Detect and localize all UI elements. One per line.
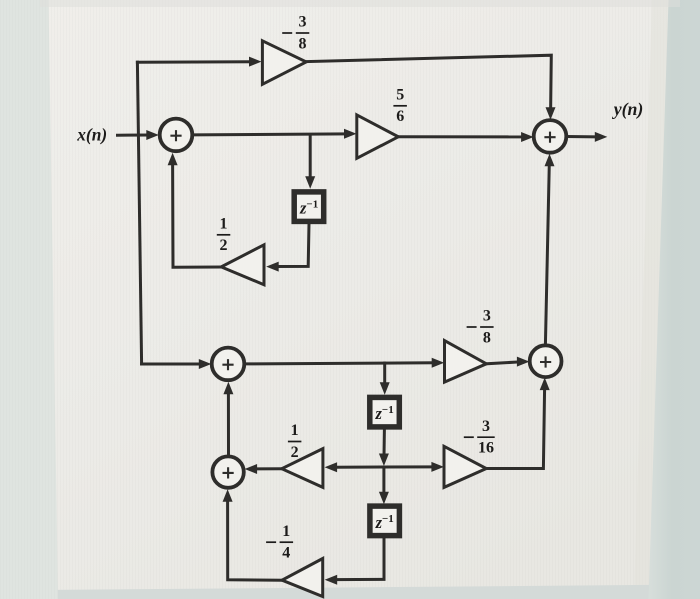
svg-text:2: 2 <box>291 444 299 461</box>
wire tap down to delay Z2 <box>380 363 390 395</box>
delay Z2 z^-1 <box>370 397 400 427</box>
faint top edge shade <box>40 0 680 7</box>
right screen strip <box>649 0 700 599</box>
adder A5 <box>212 456 243 487</box>
adder A4 <box>530 345 562 377</box>
bottom screen strip <box>40 585 700 599</box>
wire branch to gain G1 <box>137 57 261 67</box>
svg-text:4: 4 <box>282 545 290 562</box>
paper right-edge shading <box>634 0 669 599</box>
wire adder A4 output up to adder A2 bottom <box>545 154 555 345</box>
wire gain G1 output to adder A2 top <box>306 55 555 120</box>
delay Z3 z^-1 <box>370 506 400 535</box>
gain G6 triangle 1/2 (left) <box>282 449 323 488</box>
gain label -3/16 for G5 <box>464 418 495 457</box>
gain G1 triangle -3/8 <box>262 41 306 85</box>
svg-text:1: 1 <box>291 422 299 439</box>
gain G2 triangle 5/6 <box>357 115 399 158</box>
adder A1 <box>160 119 193 152</box>
gain G3 triangle 1/2 (left) <box>221 245 264 285</box>
svg-text:y(n): y(n) <box>612 99 644 120</box>
wire node J down to delay Z3 <box>379 467 389 504</box>
wire tap down to delay Z1 <box>305 135 315 189</box>
wire adder A3 output to gain G4 <box>245 358 445 368</box>
svg-text:8: 8 <box>299 35 307 52</box>
node input branch vertical line <box>137 62 141 364</box>
svg-text:x(n): x(n) <box>76 124 107 144</box>
svg-text:2: 2 <box>220 237 228 254</box>
gain label -3/8 for G1 <box>282 14 309 53</box>
wire delay Z2 output down to node J <box>379 429 389 466</box>
svg-text:8: 8 <box>483 329 491 346</box>
svg-text:3: 3 <box>299 14 307 31</box>
gain G7 triangle -1/4 (left) <box>282 559 323 597</box>
svg-text:6: 6 <box>396 108 404 125</box>
gain G5 triangle -3/16 <box>444 446 486 487</box>
svg-text:5: 5 <box>396 87 404 104</box>
left screen strip <box>0 0 58 599</box>
gain label -1/4 for G7 <box>266 523 293 562</box>
wire gain G5 output up to adder A4 bottom <box>486 378 550 469</box>
svg-text:3: 3 <box>483 308 491 325</box>
wire gain G2 output to adder A2 <box>398 132 534 142</box>
gain label 1/2 for G6 <box>288 422 302 461</box>
gain label -3/8 for G4 <box>467 308 494 347</box>
wire adder A5 output up to adder A3 bottom <box>223 382 233 457</box>
wire gain G6 output to adder A5 <box>245 464 282 474</box>
node label x(n) <box>76 124 107 144</box>
wire input x(n) to adder A1 <box>118 130 159 140</box>
wire adder A1 output to gain G2 <box>193 129 357 139</box>
wire node J horizontal to gains G6 and G5 <box>325 462 444 472</box>
gain G4 triangle -3/8 <box>445 341 487 383</box>
wire gain G7 output to adder A5 bottom <box>223 489 283 580</box>
wire branch to adder A3 <box>142 359 212 369</box>
wire adder A2 output y(n) <box>566 132 607 142</box>
gain label 1/2 for G3 <box>217 216 231 255</box>
wire gain G4 output to adder A4 <box>487 357 530 367</box>
adder A3 <box>212 348 245 381</box>
svg-text:1: 1 <box>282 523 290 540</box>
wire delay Z1 output to gain G3 <box>266 224 309 272</box>
svg-text:3: 3 <box>482 418 490 435</box>
svg-text:1: 1 <box>220 216 228 233</box>
gain label 5/6 for G2 <box>393 87 407 126</box>
delay Z1 z^-1 <box>294 192 324 222</box>
wire delay Z3 output to gain G7 <box>325 537 384 585</box>
node label y(n) <box>612 99 644 120</box>
adder A2 <box>534 120 567 153</box>
svg-text:16: 16 <box>478 440 494 457</box>
wire gain G3 output to adder A1 bottom <box>168 153 222 267</box>
